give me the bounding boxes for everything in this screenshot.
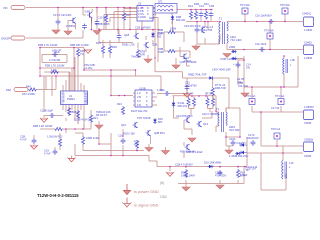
- resistor R7B: [136, 49, 145, 58]
- svg-text:C0500d: C0500d: [304, 138, 314, 142]
- label R2B: [38, 43, 58, 47]
- ground G15: [188, 138, 196, 142]
- svg-text:R0B2 704L-70F: R0B2 704L-70F: [188, 73, 207, 77]
- connector J2 ON/OFF: [1, 36, 25, 41]
- svg-text:T12W-0-H-0-2-081115: T12W-0-H-0-2-081115: [37, 193, 79, 198]
- wire ON/OFF rail: [26, 30, 83, 38]
- testpoint TP2: [280, 3, 290, 14]
- svg-text:C17 4.7uF/CPG: C17 4.7uF/CPG: [53, 13, 71, 17]
- connector CON4: [304, 138, 314, 159]
- wire inductor L1 taps: [283, 56, 285, 87]
- wire snubber top rail: [191, 9, 213, 11]
- label D4M: [221, 57, 239, 61]
- resistor R20: [54, 127, 63, 130]
- svg-text:C30W: C30W: [304, 154, 312, 158]
- svg-text:1-4008 404-15W: 1-4008 404-15W: [229, 154, 249, 158]
- connector CON1: [302, 12, 314, 33]
- wire opto block: [184, 111, 212, 158]
- wire C14 leg: [237, 76, 239, 85]
- svg-text:R50B: R50B: [70, 110, 77, 114]
- svg-text:C1b 10uF: C1b 10uF: [255, 42, 267, 46]
- label C40Y: [212, 68, 231, 72]
- wire gnd stub: [219, 183, 221, 184]
- svg-text:C16 10uF/50V: C16 10uF/50V: [255, 14, 272, 18]
- svg-text:5.7R: 5.7R: [240, 174, 246, 178]
- wire dropper 130: [129, 8, 131, 30]
- transistor Q1B2: [180, 47, 197, 66]
- label C17A2: [240, 165, 258, 177]
- transistor Q14: [185, 144, 204, 154]
- svg-text:47uF/25V: 47uF/25V: [215, 174, 227, 178]
- svg-text:15o: 15o: [84, 101, 89, 105]
- svg-text:TP1 GA: TP1 GA: [275, 94, 284, 98]
- wire T2 secondary: [226, 108, 240, 146]
- ground G7: [223, 54, 231, 58]
- label CB2: [160, 195, 167, 199]
- capacitor C18: [72, 24, 87, 30]
- svg-text:VIN: VIN: [3, 6, 7, 10]
- svg-text:506-101: 506-101: [178, 104, 188, 108]
- testpoint TP1: [240, 3, 250, 14]
- wire dropper R at 106: [105, 8, 107, 14]
- svg-text:DIM: DIM: [6, 88, 11, 92]
- capacitor C0u: [160, 88, 170, 96]
- diode D5: [151, 32, 162, 39]
- capacitor C10: [95, 16, 108, 30]
- wire ladder top rail: [40, 47, 84, 49]
- transistor Q11: [123, 130, 165, 136]
- transistor Q5: [66, 18, 76, 30]
- inductor L1: [283, 58, 295, 74]
- svg-text:C10B 10pF: C10B 10pF: [40, 109, 54, 113]
- svg-text:Q10: Q10: [121, 123, 126, 127]
- svg-text:C1B 1uF/50V: C1B 1uF/50V: [135, 26, 151, 30]
- wire ladder box loop: [42, 55, 67, 63]
- diode D2: [171, 15, 186, 22]
- svg-text:D10 1N4148W: D10 1N4148W: [204, 161, 222, 165]
- wire ladder rail3: [44, 71, 70, 73]
- wire U3 feed vertical: [111, 70, 136, 96]
- title text: [37, 193, 79, 198]
- wire right loop rectangle: [238, 56, 298, 87]
- label in box: [49, 58, 61, 62]
- svg-text:704-70R: 704-70R: [238, 84, 248, 88]
- label PDV: [84, 63, 95, 70]
- wire dropper C1B: [96, 8, 98, 14]
- svg-text:ON/OFF: ON/OFF: [1, 37, 11, 41]
- testpoint TP3: [264, 29, 274, 40]
- svg-text:3 C: 3 C: [137, 99, 141, 103]
- resistor R24: [117, 102, 125, 115]
- wire bottom diode row: [170, 167, 245, 184]
- svg-text:1.2K: 1.2K: [51, 68, 57, 72]
- transistor Q1: [200, 27, 205, 33]
- svg-text:A10 0.7R/0805: A10 0.7R/0805: [202, 112, 220, 116]
- label C12b: [175, 163, 193, 167]
- svg-text:R4B-70R: R4B-70R: [215, 86, 226, 90]
- wire mid column verticals: [99, 129, 151, 156]
- resistor R33: [211, 98, 214, 107]
- svg-text:R3B 10K 1/10W: R3B 10K 1/10W: [70, 43, 89, 47]
- svg-text:100uF/10V: 100uF/10V: [246, 136, 259, 140]
- capacitor C19b: [44, 147, 57, 156]
- wire U2 right pins: [153, 9, 158, 18]
- svg-text:Q2B: Q2B: [152, 43, 157, 47]
- wire mosfet area: [197, 22, 219, 45]
- svg-text:TP9 7UF3P: TP9 7UF3P: [137, 116, 151, 120]
- wire DIM to ladder: [37, 76, 56, 96]
- svg-text:is power GND: is power GND: [134, 189, 159, 194]
- label U10: [176, 114, 193, 118]
- svg-text:700K: 700K: [158, 31, 164, 35]
- resistor R22: [58, 133, 61, 150]
- svg-text:240R: 240R: [229, 45, 235, 49]
- wire output rail 247: [247, 137, 261, 167]
- svg-text:740: 740: [237, 80, 242, 84]
- resistor R17: [122, 12, 131, 30]
- svg-text:R16: R16: [96, 41, 101, 45]
- ground G12: [95, 121, 103, 129]
- ground G9: [84, 49, 92, 53]
- wire dropper 118: [117, 8, 119, 30]
- label R22: [47, 135, 63, 139]
- svg-text:4.7uF: 4.7uF: [44, 152, 51, 156]
- diode D11: [153, 117, 163, 124]
- svg-text:R24: R24: [117, 102, 122, 106]
- svg-text:0R 0R: 0R 0R: [205, 92, 212, 96]
- wire dropper R17: [123, 8, 125, 13]
- capacitor C10c: [118, 134, 125, 145]
- ground G1: [52, 25, 60, 34]
- resistor R40: [22, 85, 37, 97]
- svg-text:5P1: 5P1: [158, 120, 163, 124]
- wire output bus to CON3: [252, 111, 303, 113]
- wire snubber bottom rail to transformer: [186, 21, 219, 23]
- svg-text:D1D 124: D1D 124: [246, 167, 257, 171]
- svg-text:R1B2 1.5K: R1B2 1.5K: [122, 43, 135, 47]
- wire ladder mid rail: [40, 67, 74, 69]
- ground G6: [192, 44, 200, 50]
- legend power gnd: [124, 184, 160, 195]
- testpoint TP4: [246, 94, 255, 105]
- transistor Q13: [197, 121, 209, 127]
- ground G4: [93, 28, 101, 35]
- ground G11: [30, 144, 38, 149]
- label C19: [184, 24, 201, 28]
- label C1B: [135, 26, 151, 30]
- diode D6: [208, 76, 214, 80]
- wire secondary top rail to CON1: [227, 21, 303, 23]
- snubber C1B2: [209, 4, 215, 22]
- label A10: [202, 112, 220, 116]
- wire dropper U2 top: [141, 8, 143, 30]
- svg-text:C10A: C10A: [229, 137, 236, 141]
- diode D12: [229, 152, 249, 158]
- svg-text:(6): (6): [160, 181, 164, 185]
- resistor R09: [181, 169, 195, 178]
- svg-text:1-0500: 1-0500: [304, 56, 313, 60]
- svg-text:2 B: 2 B: [137, 95, 141, 99]
- svg-text:TP3 WA: TP3 WA: [264, 29, 274, 33]
- resistor R32: [205, 92, 212, 107]
- svg-text:TP1 GA: TP1 GA: [246, 94, 255, 98]
- wire VIN rail: [26, 7, 155, 9]
- svg-text:C1B 4.7uF/25V: C1B 4.7uF/25V: [175, 163, 193, 167]
- svg-text:C1B: C1B: [209, 4, 214, 8]
- svg-text:1-0600: 1-0600: [304, 28, 313, 32]
- svg-text:L10: L10: [289, 161, 294, 165]
- ground G13: [145, 148, 153, 152]
- capacitor C10A: [229, 137, 246, 146]
- svg-text:+2.15V: +2.15V: [84, 66, 93, 70]
- wire U1 bottom pin fan: [63, 104, 84, 129]
- svg-text:R2B 1.7K 1/10W: R2B 1.7K 1/10W: [38, 43, 58, 47]
- label R10B: [95, 22, 110, 26]
- capacitor C9: [52, 50, 60, 57]
- svg-text:C17 04: C17 04: [271, 106, 280, 110]
- resistor R70: [134, 140, 139, 151]
- diode D10b: [204, 161, 222, 169]
- svg-text:0.8R: 0.8R: [85, 10, 91, 14]
- svg-text:L1B: L1B: [290, 58, 295, 62]
- ground G10: [40, 118, 48, 122]
- svg-text:C40Y 4040-10R: C40Y 4040-10R: [212, 68, 231, 72]
- svg-text:NCP: NCP: [149, 16, 155, 20]
- wire U1 top pin fan: [63, 57, 84, 91]
- capacitor C20: [215, 170, 227, 178]
- svg-text:Q13: Q13: [203, 122, 208, 126]
- wire T2 area rails: [172, 96, 216, 118]
- connector CON3: [304, 105, 315, 125]
- legend signal gnd: [123, 198, 159, 208]
- label note6: [160, 181, 164, 185]
- connector CON2: [304, 41, 314, 61]
- resistor R0B3: [211, 83, 226, 96]
- diode D0A: [172, 101, 188, 108]
- label R2B2: [45, 64, 65, 68]
- label D7V: [202, 25, 214, 32]
- svg-text:LF1: LF1: [158, 0, 163, 4]
- svg-text:1.0B: 1.0B: [157, 88, 163, 92]
- resistor R30: [186, 92, 193, 107]
- testpoint TP6: [271, 127, 280, 139]
- svg-text:R2B 1.7K 1/10W: R2B 1.7K 1/10W: [45, 64, 65, 68]
- svg-text:D4M Yw2440C: D4M Yw2440C: [221, 57, 239, 61]
- wire ladder right verticals: [70, 48, 78, 92]
- svg-text:Q1B: Q1B: [124, 33, 129, 37]
- wire driver block top verticals: [99, 30, 153, 43]
- label R0B2: [188, 73, 207, 77]
- svg-text:C0400: C0400: [304, 41, 312, 45]
- transformer T1: [219, 17, 242, 45]
- diode D4: [231, 57, 244, 61]
- svg-text:4 GND: 4 GND: [138, 15, 146, 19]
- capacitor C7B: [40, 109, 55, 118]
- svg-text:Q2B P04: Q2B P04: [154, 131, 165, 135]
- ground G21: [172, 58, 180, 69]
- svg-text:TP2 GA: TP2 GA: [271, 127, 280, 131]
- svg-text:1uF: 1uF: [55, 50, 60, 54]
- wire diode D2 drop: [171, 10, 173, 25]
- label A2B: [52, 49, 62, 53]
- wire U3 output: [157, 85, 187, 94]
- resistor R16: [96, 40, 105, 58]
- resistor R31: [192, 98, 195, 107]
- wire TP2 stub: [284, 14, 286, 22]
- diode D14: [239, 151, 247, 155]
- label R2B3: [33, 124, 53, 128]
- capacitor C12A: [195, 27, 200, 33]
- svg-text:D10? 04L-704: D10? 04L-704: [131, 109, 148, 113]
- capacitor C22: [20, 135, 36, 145]
- wire C7B row: [44, 116, 63, 119]
- svg-text:7R4 T4R: 7R4 T4R: [229, 128, 239, 132]
- connector J3 DIM: [6, 88, 28, 93]
- label C17x: [271, 106, 280, 110]
- wire FB rail2: [40, 76, 161, 89]
- wire driver block cross: [99, 36, 153, 58]
- svg-text:YK2 1400: YK2 1400: [230, 38, 242, 42]
- ground G14: [131, 55, 152, 64]
- wire mid rail y29.5: [99, 29, 160, 31]
- capacitor C1b: [255, 42, 267, 52]
- snubber R1A: [188, 4, 193, 20]
- ground G18: [166, 172, 174, 176]
- svg-text:Q1B 470-440F: Q1B 470-440F: [180, 60, 197, 64]
- label C10n: [184, 56, 192, 63]
- svg-text:1-05000: 1-05000: [304, 105, 314, 109]
- capacitor C11: [117, 30, 122, 44]
- svg-text:U10 078-08PF: U10 078-08PF: [176, 114, 193, 118]
- wire U2 left pins: [104, 9, 137, 30]
- capacitor C17A: [246, 133, 259, 146]
- wire C18 leg: [85, 8, 98, 30]
- svg-text:+R10B 0R05: +R10B 0R05: [95, 22, 110, 26]
- wire startup column: [164, 21, 190, 58]
- transistor Q10: [121, 122, 138, 128]
- svg-text:74u/74W: 74u/74W: [131, 55, 142, 59]
- wire FB rail right: [84, 48, 136, 71]
- ground G2: [64, 29, 72, 35]
- resistor R50B: [67, 107, 76, 116]
- line filter LF1: [155, 0, 177, 13]
- ground G8: [241, 87, 249, 97]
- svg-text:1/8W: 1/8W: [170, 27, 177, 31]
- wire LF1 to snubber bank: [177, 9, 191, 11]
- svg-text:4 D: 4 D: [137, 103, 141, 107]
- resistor R21: [84, 110, 98, 129]
- wire dropper C17: [57, 8, 59, 20]
- wire secondary lower rail to CON2: [227, 43, 303, 50]
- ground G22: [183, 93, 191, 97]
- resistor R23: [75, 133, 100, 151]
- svg-text:700K: 700K: [158, 50, 164, 54]
- svg-text:R1D2 15K: R1D2 15K: [123, 132, 135, 136]
- connector J1 VIN: [3, 6, 25, 11]
- svg-text:47R: 47R: [134, 143, 139, 147]
- snubber C1A: [199, 4, 205, 22]
- label R0B4: [238, 81, 248, 88]
- ground G17: [225, 146, 233, 154]
- svg-text:CB2: CB2: [160, 195, 167, 199]
- svg-text:R2B 1.2K 1/10W: R2B 1.2K 1/10W: [33, 124, 53, 128]
- ground G19: [216, 185, 224, 189]
- svg-text:1.5K/1W R22: 1.5K/1W R22: [47, 135, 63, 139]
- svg-text:R4 04 R7: R4 04 R7: [96, 113, 108, 117]
- transistor Q4: [122, 42, 157, 48]
- svg-text:R4A-705: R4A-705: [202, 28, 213, 32]
- svg-text:4.7uF/1W: 4.7uF/1W: [49, 58, 61, 62]
- svg-text:R17: R17: [126, 13, 131, 17]
- resistor R18: [108, 40, 117, 58]
- resistor R51: [74, 110, 93, 124]
- wire bottom right loop: [261, 146, 303, 190]
- diode D3: [229, 45, 237, 53]
- capacitor C17: [53, 13, 71, 25]
- transistor Q6: [83, 8, 92, 30]
- svg-text:24L: 24L: [246, 66, 251, 70]
- label R3B: [70, 43, 89, 47]
- inductor L2: [282, 161, 294, 180]
- transformer T2: [216, 107, 239, 132]
- ground G16: [162, 147, 195, 155]
- IC U3: [133, 87, 157, 108]
- svg-text:is signal GND: is signal GND: [134, 203, 159, 208]
- label TP9: [137, 116, 151, 120]
- transistor Q3: [124, 33, 139, 39]
- svg-text:R18: R18: [112, 45, 117, 49]
- resistor R10: [236, 169, 245, 178]
- wire bottom mid rails: [72, 144, 248, 167]
- capacitor C14: [233, 62, 251, 70]
- svg-text:TP1 WA: TP1 WA: [240, 3, 250, 7]
- svg-text:240R 1/4W: 240R 1/4W: [86, 136, 100, 140]
- snubber R1C: [204, 2, 209, 20]
- resistor R0B: [158, 27, 177, 36]
- svg-text:U2: U2: [138, 2, 142, 6]
- svg-text:R08 4004AF: R08 4004AF: [180, 150, 195, 154]
- svg-text:0.62R 1/4W: 0.62R 1/4W: [181, 174, 195, 178]
- resistor R19: [50, 68, 59, 74]
- wire ladder left rail: [39, 48, 41, 77]
- wire left C22 leg: [33, 135, 35, 138]
- svg-text:R40: R40: [26, 85, 31, 89]
- svg-text:DIO 1/10W: DIO 1/10W: [22, 92, 35, 96]
- wire U2 right droppers: [155, 12, 158, 63]
- IC U1: [61, 91, 89, 105]
- capacitor C16: [255, 14, 274, 24]
- wire under-IC bottom rails: [40, 76, 84, 133]
- wire CON4 feed: [261, 112, 303, 146]
- svg-text:C04001: C04001: [302, 12, 312, 16]
- wire TP5 stub: [276, 140, 278, 146]
- svg-text:600-101: 600-101: [176, 18, 186, 22]
- svg-text:5V1: 5V1: [157, 35, 162, 39]
- svg-text:C30W: C30W: [304, 121, 312, 125]
- svg-text:TP2 WA: TP2 WA: [280, 3, 290, 7]
- label TRF: [96, 110, 111, 117]
- IC U2: [137, 2, 155, 22]
- wire VCC feed row: [155, 58, 229, 112]
- diode D13: [239, 143, 247, 147]
- svg-text:R1A: R1A: [188, 4, 193, 8]
- wire TP3 stub: [269, 39, 271, 50]
- wire TP GA stubs: [252, 87, 281, 112]
- label D124: [246, 167, 257, 171]
- snubber R1B: [194, 2, 199, 20]
- label A47B: [237, 77, 244, 84]
- ground G23: [68, 158, 76, 162]
